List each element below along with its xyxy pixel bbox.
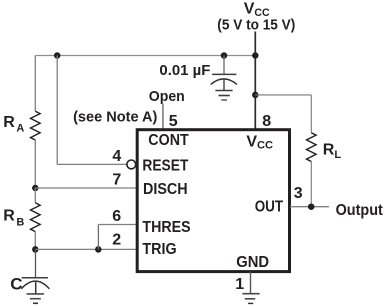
svg-text:2: 2 (112, 231, 121, 248)
ground symbol (pin 1) (242, 294, 259, 304)
junction node F (THRES branch on TRIG wire) (95, 246, 102, 253)
wire RA to DISCH node (34, 140, 36, 188)
IC U1 (555 timer) box (137, 130, 289, 272)
svg-text:RL: RL (323, 142, 342, 161)
svg-text:3: 3 (294, 185, 303, 202)
capacitor C (10, 275, 49, 294)
svg-text:GND: GND (236, 254, 269, 271)
svg-text:TRIG: TRIG (142, 241, 176, 258)
svg-text:C: C (10, 275, 22, 294)
svg-text:VCC: VCC (246, 133, 273, 151)
svg-text:8: 8 (262, 113, 271, 130)
wire DISCH pin 7 (35, 187, 137, 189)
svg-text:1: 1 (235, 276, 244, 293)
wire node E down to capacitor C (35, 249, 37, 277)
wire top rail (35, 55, 255, 57)
wire TRIG pin 2 (35, 248, 137, 250)
svg-text:Output: Output (336, 202, 384, 219)
svg-text:5: 5 (169, 113, 178, 130)
wire RL bottom to output node (310, 162, 312, 207)
wire CONT pin 5 stub (162, 104, 164, 130)
resistor RB (3, 203, 40, 232)
resistor RL (307, 133, 342, 162)
wire RB to TRIG node (34, 232, 36, 250)
RESET inverter bubble (127, 160, 136, 169)
svg-text:6: 6 (112, 208, 121, 225)
wire capacitor C to ground (35, 282, 37, 294)
ground symbol (C) (27, 294, 44, 303)
svg-text:RESET: RESET (142, 158, 188, 175)
junction node D (RA/RB/DISCH) (32, 185, 39, 192)
svg-text:CONT: CONT (148, 132, 189, 149)
resistor RA (3, 111, 40, 140)
svg-text:THRES: THRES (142, 219, 190, 236)
junction node H (output) (308, 203, 315, 210)
wire RESET branch vertical (56, 56, 58, 165)
wire VCC stem (254, 32, 256, 130)
svg-text:(see Note A): (see Note A) (73, 109, 157, 126)
junction node C (VCC stem on top rail) (252, 52, 258, 59)
wire RA top segment (34, 56, 36, 112)
wire THRES branch vertical (97, 225, 99, 250)
wire RL branch vertical top (310, 95, 312, 133)
wire RB top segment (34, 188, 36, 203)
node VCC label (217, 1, 295, 34)
svg-text:0.01 µF: 0.01 µF (159, 62, 210, 79)
wire OUT pin 3 (290, 206, 329, 208)
svg-text:RA: RA (3, 114, 24, 135)
svg-text:Open: Open (149, 88, 185, 105)
svg-text:4: 4 (112, 148, 121, 165)
wire RL branch horizontal (255, 94, 311, 96)
junction node E (RB/TRIG/C) (32, 246, 39, 253)
capacitor 0.01uF stub (223, 56, 225, 75)
wire GND pin 1 stub (250, 272, 252, 294)
svg-text:RB: RB (3, 208, 24, 229)
svg-text:DISCH: DISCH (143, 181, 188, 198)
ground symbol (bypass cap) (215, 91, 232, 101)
svg-text:(5 V to 15 V): (5 V to 15 V) (217, 17, 295, 34)
junction node B (bypass cap tap) (221, 52, 228, 59)
svg-text:7: 7 (112, 171, 121, 188)
svg-text:OUT: OUT (255, 198, 284, 215)
capacitor 0.01uF (159, 62, 237, 85)
junction node G (VCC stem / RL branch) (252, 92, 258, 99)
wire RESET pin 4 horizontal (57, 163, 127, 165)
wire capacitor 0.01uF to ground (223, 80, 225, 91)
wire THRES pin 6 (98, 224, 137, 226)
junction node A (top rail / RESET branch) (54, 52, 61, 59)
